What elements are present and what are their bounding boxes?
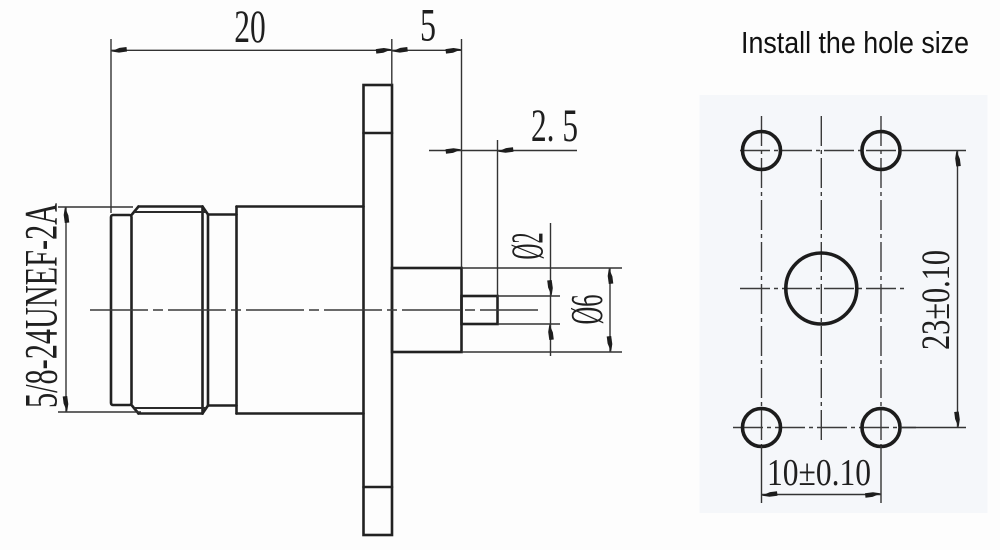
svg-text:20: 20 <box>234 1 266 53</box>
svg-text:23±0.10: 23±0.10 <box>913 250 958 350</box>
svg-text:Install the hole size: Install the hole size <box>741 25 969 60</box>
svg-text:2. 5: 2. 5 <box>531 100 578 152</box>
svg-text:5/8-24UNEF-2A: 5/8-24UNEF-2A <box>16 203 68 408</box>
svg-text:5: 5 <box>420 0 436 52</box>
svg-text:Ø6: Ø6 <box>561 295 612 325</box>
svg-text:Ø2: Ø2 <box>502 233 553 260</box>
svg-text:10±0.10: 10±0.10 <box>767 452 871 494</box>
